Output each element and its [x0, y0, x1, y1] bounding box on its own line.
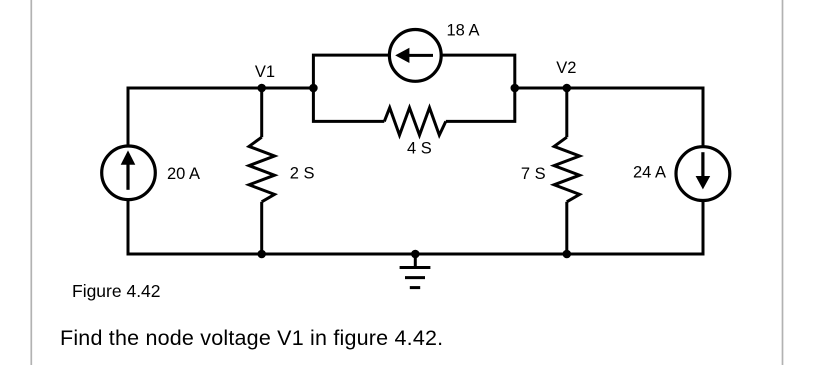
svg-text:24 A: 24 A	[633, 164, 666, 182]
current source 20A arrow	[121, 150, 136, 189]
page side rules	[30, 0, 32, 365]
svg-text:18 A: 18 A	[447, 22, 480, 40]
current source 18A circle	[389, 30, 441, 82]
wire loop top-left branch	[313, 55, 389, 89]
svg-text:Find the node voltage V1 in fi: Find the node voltage V1 in figure 4.42.	[60, 326, 443, 350]
wire loop bottom-right branch	[446, 87, 515, 122]
wire 2S bottom lead	[260, 202, 263, 254]
node bottom dot left	[257, 250, 266, 259]
svg-text:20 A: 20 A	[167, 165, 200, 183]
node junction dot loop-right	[511, 84, 520, 93]
node V1 junction dot	[257, 84, 266, 93]
resistor 4S zigzag	[384, 108, 446, 135]
wire 2S top lead	[260, 88, 263, 137]
svg-text:Figure 4.42: Figure 4.42	[72, 281, 161, 301]
current source 24A circle	[676, 147, 730, 201]
wire loop top-right branch	[441, 55, 515, 89]
node bottom dot ground	[411, 250, 420, 259]
node junction dot loop-left	[309, 84, 318, 93]
node bottom dot right	[563, 250, 572, 259]
wire 7S bottom lead	[565, 202, 568, 254]
svg-text:V1: V1	[255, 63, 275, 81]
wire top-left: source to node V1 to loop junction	[128, 88, 313, 146]
resistor 7S zigzag	[554, 137, 580, 202]
wire top-right: loop junction to node V2 to right source	[513, 88, 703, 146]
svg-text:2 S: 2 S	[290, 165, 315, 183]
current source 24A arrow	[696, 152, 711, 189]
node V2 junction dot	[563, 84, 572, 93]
ground	[400, 254, 431, 288]
current source 20A circle	[102, 146, 156, 200]
svg-text:V2: V2	[556, 59, 576, 77]
current source 18A arrow	[395, 48, 433, 63]
svg-text:4 S: 4 S	[407, 140, 432, 158]
svg-text:7 S: 7 S	[521, 165, 546, 183]
wire 7S top lead	[565, 88, 568, 137]
wire loop bottom-left branch	[313, 87, 384, 122]
wire bottom rail	[128, 200, 703, 254]
resistor 2S zigzag	[249, 137, 275, 202]
